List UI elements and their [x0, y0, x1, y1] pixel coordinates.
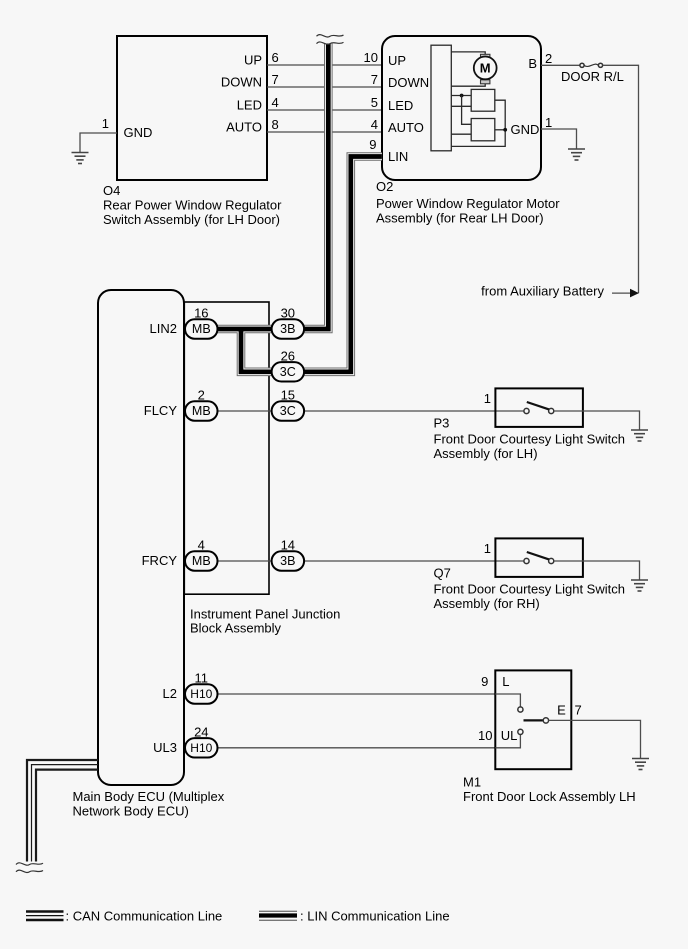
LIN communication lines (thick) : outlines: [218, 44, 382, 372]
M1 internal wire UL to contact: [495, 735, 520, 748]
svg-text:AUTO: AUTO: [226, 120, 262, 135]
svg-text:AUTO: AUTO: [388, 120, 424, 135]
switch lever (M1): [524, 719, 544, 721]
svg-text:O2: O2: [376, 179, 393, 194]
svg-text:11: 11: [195, 671, 209, 686]
svg-text:from Auxiliary Battery: from Auxiliary Battery: [481, 284, 604, 299]
switch contact left (P3): [524, 408, 529, 413]
switch pivot contact (M1): [543, 718, 548, 723]
svg-text:9: 9: [481, 674, 488, 689]
switch P3 Front Door Courtesy Light Switch (LH): [495, 388, 583, 427]
svg-text:14: 14: [281, 538, 295, 553]
switch Q7 Front Door Courtesy Light Switch (RH): [495, 538, 583, 577]
switch contact right (Q7): [549, 558, 554, 563]
svg-text:FRCY: FRCY: [142, 553, 178, 568]
O2 internal wire dot to relay block 2: [462, 96, 472, 125]
ground (P3): [631, 430, 648, 441]
svg-text:2: 2: [545, 51, 552, 66]
svg-text:5: 5: [371, 95, 378, 110]
wire FRCY MB to 3B: [218, 560, 272, 562]
switch contact right (P3): [549, 408, 554, 413]
svg-text:6: 6: [272, 50, 279, 65]
circuit breaker DOOR R/L: [580, 63, 584, 67]
wire LIN branch to 3C core: [241, 329, 272, 372]
svg-text:E: E: [557, 703, 566, 718]
svg-text:16: 16: [194, 306, 208, 321]
component Instrument Panel Junction Block Assembly: [184, 302, 269, 594]
arrow from auxiliary battery: [612, 292, 631, 294]
svg-text:4: 4: [198, 538, 205, 553]
M1 internal wire L to contact: [495, 694, 520, 707]
svg-text:Network Body ECU): Network Body ECU): [73, 804, 189, 819]
wire O4 GND pin 1 to ground: [80, 133, 117, 153]
svg-text:UP: UP: [388, 53, 406, 68]
svg-text:1: 1: [484, 541, 491, 556]
relay block 2 (O2 internal): [471, 119, 495, 141]
svg-text:7: 7: [575, 703, 582, 718]
svg-text:UL3: UL3: [153, 740, 177, 755]
wire FLCY 3C to P3: [304, 410, 524, 412]
svg-text:M: M: [480, 61, 491, 76]
connector oval H10 (UL3 row) pin 24: [185, 738, 218, 757]
svg-text:H10: H10: [190, 741, 212, 755]
svg-text:L2: L2: [163, 686, 177, 701]
svg-text:30: 30: [281, 306, 295, 321]
svg-text:3C: 3C: [280, 404, 296, 418]
svg-text:Block Assembly: Block Assembly: [190, 621, 282, 636]
ground (M1): [632, 759, 649, 770]
svg-text:1: 1: [545, 115, 552, 130]
LIN lines white inner band: [218, 44, 382, 372]
wire DOWN O4 to O2: [267, 86, 382, 88]
svg-text:MB: MB: [192, 322, 211, 336]
svg-text:Instrument Panel Junction: Instrument Panel Junction: [190, 606, 340, 621]
svg-text:Assembly (for LH): Assembly (for LH): [434, 446, 538, 461]
wire LIN 3C to O2 LIN pin core: [304, 157, 382, 372]
wire LIN trunk core (to rear LH window system above): [304, 44, 328, 330]
svg-text:15: 15: [281, 388, 295, 403]
svg-text:B: B: [528, 56, 537, 71]
svg-text:Assembly (for Rear LH Door): Assembly (for Rear LH Door): [376, 211, 544, 226]
svg-text:GND: GND: [511, 122, 540, 137]
switch contact L (M1): [518, 707, 523, 712]
svg-text:26: 26: [281, 348, 295, 363]
svg-text:3B: 3B: [280, 554, 295, 568]
svg-text:Q7: Q7: [434, 565, 451, 580]
svg-text:Power Window Regulator Motor: Power Window Regulator Motor: [376, 196, 560, 211]
wire M1 E pin 7 to ground: [549, 719, 572, 721]
svg-text:MB: MB: [192, 404, 211, 418]
svg-text:3C: 3C: [280, 365, 296, 379]
junction dot (O2 internal): [460, 94, 464, 98]
svg-text:Assembly (for RH): Assembly (for RH): [434, 596, 540, 611]
svg-text:Rear Power Window Regulator: Rear Power Window Regulator: [103, 198, 282, 213]
svg-text:2: 2: [198, 388, 205, 403]
svg-text:DOWN: DOWN: [388, 75, 429, 90]
svg-text:4: 4: [272, 95, 279, 110]
component M1 Front Door Lock Assembly LH: [495, 670, 571, 769]
ground (O2): [568, 149, 585, 160]
connector oval 3B (FRCY row) pin 14: [272, 551, 305, 570]
svg-text:LED: LED: [237, 98, 262, 113]
connector oval H10 (L2 row) pin 11: [185, 684, 218, 703]
O2 internal wire bar to relay block 1: [451, 95, 471, 97]
svg-text:1: 1: [102, 116, 109, 131]
svg-text:DOWN: DOWN: [221, 75, 262, 90]
svg-text:M1: M1: [463, 774, 481, 789]
CAN communication line from ECU (triple line): [27, 760, 98, 862]
component Main Body ECU (Multiplex Network Body ECU): [98, 290, 184, 785]
wire FLCY MB to 3C: [218, 410, 272, 412]
relay block 1 (O2 internal): [471, 89, 495, 111]
svg-text:GND: GND: [124, 125, 153, 140]
svg-text:3B: 3B: [280, 322, 295, 336]
svg-text:L: L: [502, 674, 509, 689]
svg-text:Front Door Courtesy Light Swit: Front Door Courtesy Light Switch: [434, 432, 625, 447]
svg-text:H10: H10: [190, 687, 212, 701]
svg-text:7: 7: [371, 72, 378, 87]
wire circuit breaker to auxiliary battery feed: [603, 65, 639, 293]
wire L2 H10 to M1: [218, 693, 496, 695]
connector oval MB (FLCY row) pin 2: [185, 401, 218, 420]
component O2 Power Window Regulator Motor Assembly: [382, 36, 541, 180]
svg-text:7: 7: [272, 72, 279, 87]
wire UP O4 to O2: [267, 64, 382, 66]
connector oval MB (FRCY row) pin 4: [185, 551, 218, 570]
svg-text:O4: O4: [103, 183, 120, 198]
connector oval MB (LIN2 row) pin 16: [185, 319, 218, 338]
ground (Q7): [631, 580, 648, 591]
O2 internal wire block2 to GND node: [495, 129, 507, 131]
connector oval 3C (FLCY row) pin 15: [272, 401, 305, 420]
svg-text:9: 9: [369, 137, 376, 152]
svg-text:1: 1: [484, 391, 491, 406]
svg-text:LIN: LIN: [388, 149, 408, 164]
wire LED O4 to O2: [267, 109, 382, 111]
svg-text:MB: MB: [192, 554, 211, 568]
svg-text:10: 10: [478, 728, 492, 743]
O2 internal connector bar: [431, 45, 451, 151]
svg-text:DOOR R/L: DOOR R/L: [561, 69, 624, 84]
svg-text:: LIN Communication Line: : LIN Communication Line: [300, 909, 450, 924]
wire LIN MB to 3B core: [218, 327, 272, 332]
svg-text:Front Door Lock Assembly LH: Front Door Lock Assembly LH: [463, 789, 636, 804]
connector oval 3B (LIN2 row) pin 30: [272, 319, 305, 338]
motor M (O2): [481, 54, 490, 58]
wire B pin 2 to circuit breaker: [541, 64, 580, 66]
svg-text:UL: UL: [501, 728, 518, 743]
svg-text:: CAN Communication Line: : CAN Communication Line: [66, 909, 223, 924]
svg-text:UP: UP: [244, 53, 262, 68]
svg-text:LIN2: LIN2: [150, 321, 177, 336]
svg-text:24: 24: [194, 724, 208, 739]
O2 internal wire block1 to GND rail: [451, 100, 505, 146]
switch lever (P3): [527, 402, 549, 409]
svg-text:10: 10: [364, 50, 378, 65]
svg-text:Front Door Courtesy Light Swit: Front Door Courtesy Light Switch: [434, 582, 625, 597]
O2 internal wire motor bottom to bar: [451, 84, 485, 86]
svg-text:LED: LED: [388, 98, 413, 113]
switch lever (Q7): [527, 552, 549, 559]
junction dot GND node (O2 internal): [503, 128, 507, 132]
O2 internal wire bar to motor top: [451, 52, 485, 54]
svg-text:FLCY: FLCY: [144, 403, 178, 418]
wire FRCY 3B to Q7: [304, 560, 524, 562]
legend LIN line symbol: [259, 910, 297, 912]
switch contact left (Q7): [524, 558, 529, 563]
wire P3 to ground: [554, 411, 640, 430]
svg-text:P3: P3: [434, 415, 450, 430]
svg-text:Main Body ECU (Multiplex: Main Body ECU (Multiplex: [73, 789, 225, 804]
svg-text:4: 4: [371, 117, 378, 132]
component O4 Rear Power Window Regulator Switch Assembly: [117, 36, 267, 180]
switch contact UL (M1): [518, 729, 523, 734]
connector oval 3C (LIN branch row) pin 26: [272, 362, 305, 381]
wire O2 GND pin 1 to ground: [541, 129, 577, 149]
wire UL3 H10 to M1: [218, 747, 496, 749]
break symbol (CAN line bottom): [16, 863, 43, 865]
wire Q7 to ground: [554, 561, 640, 580]
svg-text:Switch Assembly (for LH Door): Switch Assembly (for LH Door): [103, 212, 280, 227]
wire AUTO O4 to O2: [267, 131, 382, 133]
legend CAN line symbol: [26, 912, 64, 921]
svg-text:8: 8: [272, 117, 279, 132]
break symbol (LIN trunk top): [317, 35, 344, 37]
ground (O4): [72, 153, 89, 164]
